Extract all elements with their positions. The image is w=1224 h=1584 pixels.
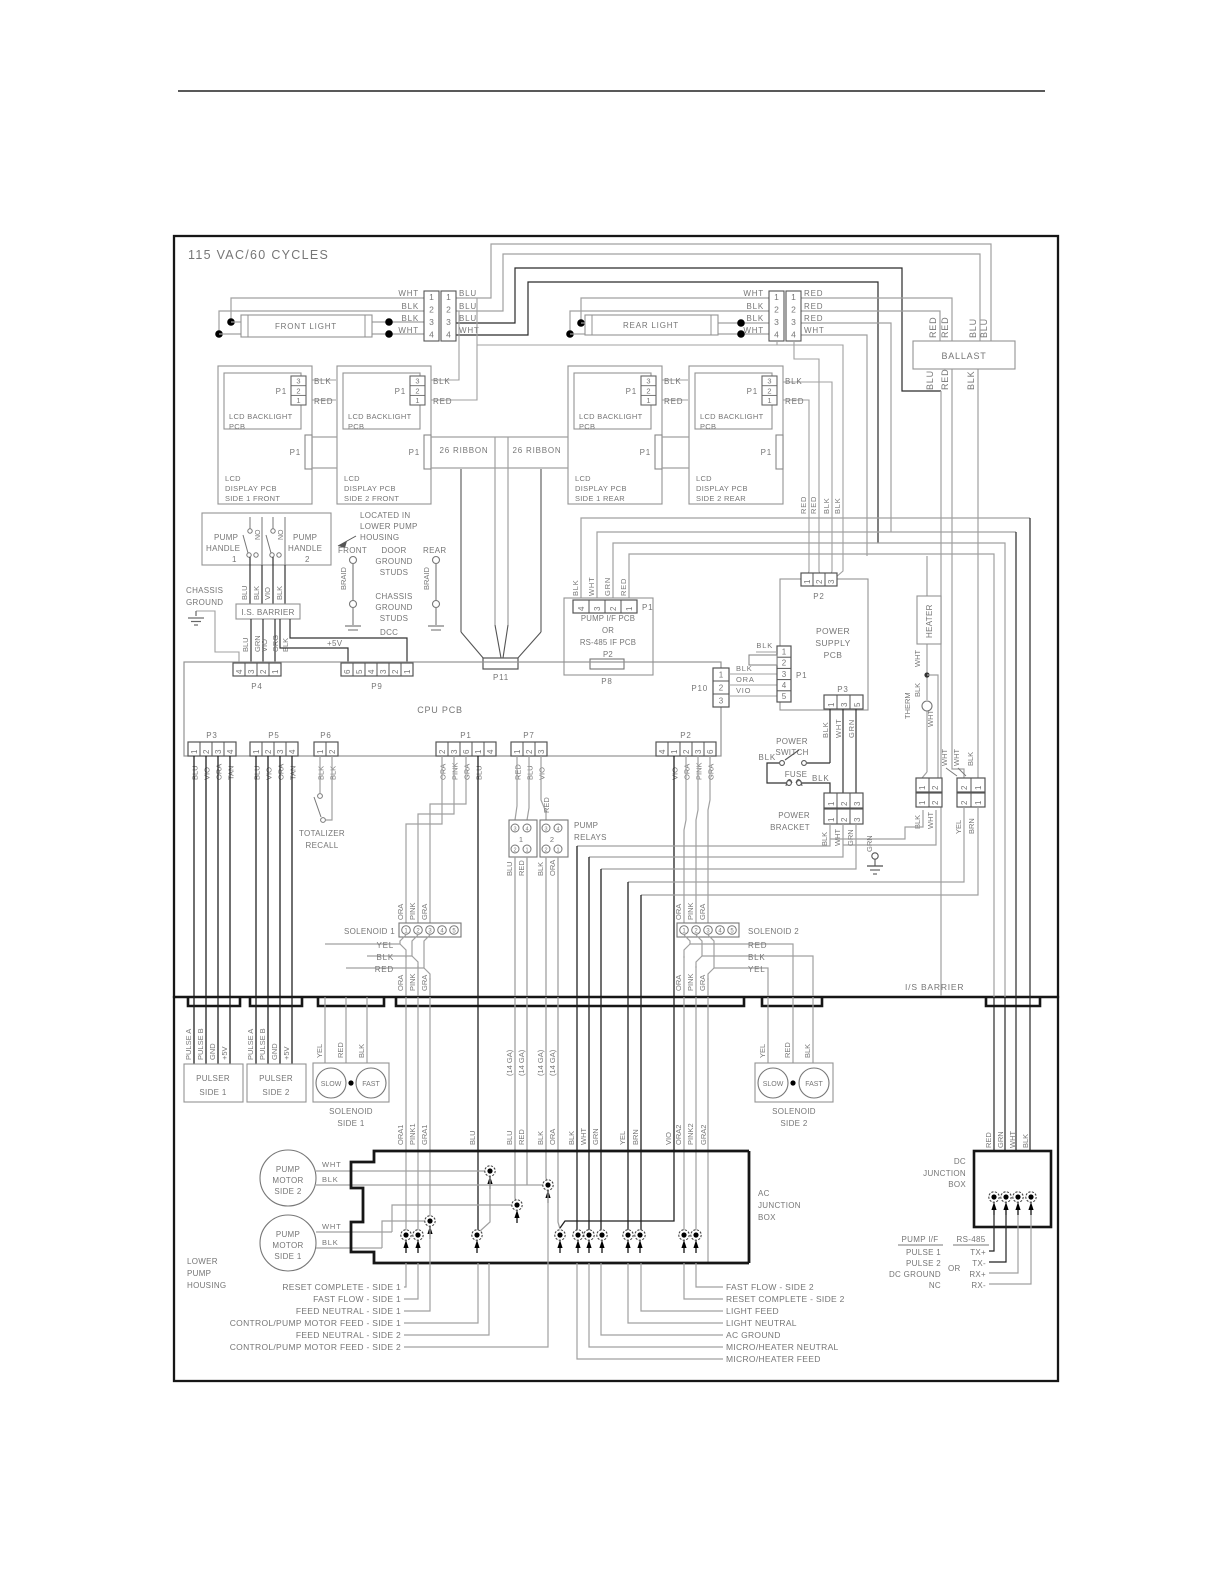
svg-text:BLK: BLK [376, 953, 394, 962]
svg-text:BLK: BLK [401, 302, 419, 311]
svg-text:3: 3 [544, 826, 547, 832]
svg-text:OR: OR [602, 626, 614, 635]
svg-text:4: 4 [486, 749, 495, 754]
power supply P2 connector [799, 496, 842, 601]
svg-text:2: 2 [931, 800, 940, 805]
svg-text:RED: RED [799, 496, 808, 514]
wire P2 ORA to solenoid 2 [684, 756, 686, 925]
svg-text:CPU PCB: CPU PCB [417, 705, 463, 715]
wire backlight4 RED to power supply P2 [777, 400, 809, 578]
svg-text:BLK: BLK [822, 497, 831, 514]
wire rear light right to connector [718, 319, 769, 338]
svg-text:BLK: BLK [803, 1044, 812, 1058]
svg-text:1: 1 [296, 396, 300, 405]
wire 14 GA bundle [505, 997, 560, 1229]
svg-text:CONTROL/PUMP MOTOR FEED - SIDE: CONTROL/PUMP MOTOR FEED - SIDE 1 [230, 1318, 401, 1328]
wire P1 BLU to AC junction box [477, 756, 479, 1235]
svg-text:YEL: YEL [954, 820, 963, 834]
svg-text:GROUND: GROUND [186, 598, 223, 607]
svg-text:WHT: WHT [940, 749, 949, 766]
svg-text:HANDLE: HANDLE [288, 544, 322, 553]
svg-text:BLK: BLK [966, 371, 976, 390]
svg-text:FEED NEUTRAL - SIDE 1: FEED NEUTRAL - SIDE 1 [296, 1306, 401, 1316]
power connector pair right [954, 778, 985, 834]
wire YEL BRN bundle [618, 997, 641, 1235]
svg-text:3: 3 [791, 317, 796, 327]
svg-text:PULSE A: PULSE A [246, 1029, 255, 1060]
wire BLK DCC to P9 pin1 [290, 619, 407, 663]
svg-text:BLK: BLK [322, 1175, 339, 1184]
rear light [585, 315, 718, 335]
svg-text:3: 3 [840, 702, 849, 707]
svg-text:3: 3 [774, 317, 779, 327]
svg-text:GRN: GRN [591, 1128, 600, 1145]
svg-text:1: 1 [446, 292, 451, 302]
wire rear-connector RED row3 [801, 323, 891, 532]
svg-text:RED: RED [336, 1042, 345, 1058]
svg-text:P9: P9 [371, 682, 382, 691]
pump handle box [202, 513, 331, 565]
svg-text:VIO: VIO [263, 587, 272, 600]
solenoid side 1 [313, 1063, 389, 1128]
pulser side 1 [184, 1064, 243, 1102]
svg-text:WHT: WHT [833, 829, 842, 846]
svg-text:3: 3 [379, 669, 388, 674]
pump I/F P1 connector [573, 600, 653, 613]
wire P3 to pulser side 1 [194, 756, 230, 996]
svg-text:MICRO/HEATER FEED: MICRO/HEATER FEED [726, 1354, 821, 1364]
wire solenoid1 BLK [367, 935, 418, 968]
svg-text:SLOW: SLOW [763, 1081, 784, 1088]
svg-text:6: 6 [462, 749, 471, 754]
svg-text:3: 3 [446, 317, 451, 327]
svg-text:1: 1 [474, 749, 483, 754]
svg-text:BLK: BLK [748, 953, 766, 962]
svg-text:BLU: BLU [505, 1130, 514, 1145]
svg-text:AC GROUND: AC GROUND [726, 1330, 781, 1340]
svg-text:CHASSIS: CHASSIS [375, 592, 412, 601]
svg-text:4: 4 [577, 606, 586, 611]
svg-text:BLK: BLK [821, 721, 830, 738]
ballast [913, 317, 1015, 390]
svg-text:YEL: YEL [758, 1044, 767, 1058]
svg-text:1: 1 [429, 292, 434, 302]
svg-text:TAN: TAN [289, 766, 298, 780]
svg-text:BLK: BLK [357, 1044, 366, 1058]
svg-text:1: 1 [415, 396, 419, 405]
wire rear-connector WHT row4 [801, 335, 867, 556]
svg-text:1: 1 [525, 847, 528, 853]
svg-text:2: 2 [296, 386, 300, 395]
svg-text:GRN: GRN [846, 829, 855, 846]
svg-text:PINK2: PINK2 [686, 1123, 695, 1145]
svg-text:(14 GA): (14 GA) [505, 1049, 514, 1076]
ground GRN stub [865, 835, 883, 874]
title 115 VAC/60 CYCLES [188, 248, 329, 262]
svg-text:3: 3 [782, 670, 787, 679]
labels WHT WHT BLK to power connectors [940, 749, 975, 776]
svg-text:I/S BARRIER: I/S BARRIER [905, 982, 964, 992]
svg-text:RESET COMPLETE - SIDE 1: RESET COMPLETE - SIDE 1 [282, 1282, 401, 1292]
svg-text:YEL: YEL [748, 965, 766, 974]
connector P10 cpu [691, 668, 729, 707]
svg-text:1: 1 [767, 396, 771, 405]
wire ballast RED down to heater connector [952, 369, 964, 778]
pump relays label [574, 821, 607, 842]
svg-text:115 VAC/60 CYCLES: 115 VAC/60 CYCLES [188, 248, 329, 262]
svg-text:VIO: VIO [260, 639, 269, 652]
svg-text:GROUND: GROUND [375, 603, 412, 612]
svg-text:2: 2 [259, 669, 268, 674]
svg-text:2: 2 [328, 749, 337, 754]
svg-text:1: 1 [827, 817, 836, 822]
svg-text:BLK: BLK [322, 1238, 339, 1247]
svg-text:PINK1: PINK1 [408, 1123, 417, 1145]
svg-text:P11: P11 [493, 673, 509, 682]
svg-text:BLK: BLK [833, 497, 842, 514]
wire solenoid1 down ORA PINK GRA [396, 956, 430, 996]
svg-text:1: 1 [252, 749, 261, 754]
svg-text:P1: P1 [640, 448, 651, 457]
svg-text:LCD BACKLIGHT: LCD BACKLIGHT [700, 412, 764, 421]
svg-text:DISPLAY PCB: DISPLAY PCB [225, 484, 277, 493]
svg-text:GRA: GRA [698, 975, 707, 991]
chassis ground [186, 586, 239, 663]
door ground studs label [375, 546, 412, 577]
svg-text:WHT: WHT [834, 719, 843, 738]
svg-text:2: 2 [960, 785, 969, 790]
svg-text:BLK: BLK [746, 314, 764, 323]
svg-text:RED: RED [785, 397, 804, 406]
svg-text:ORA: ORA [548, 860, 557, 876]
svg-text:PUMP: PUMP [293, 533, 317, 542]
wire barrier to solenoid side 2 [758, 997, 813, 1080]
svg-text:2: 2 [719, 684, 724, 693]
svg-text:BLK: BLK [433, 377, 451, 386]
svg-text:WHT: WHT [587, 577, 596, 596]
DC junction terminals [989, 1192, 1036, 1215]
lcd display pcb side 1 rear [568, 366, 683, 504]
svg-text:P1: P1 [290, 448, 301, 457]
connector P5 cpu [250, 731, 298, 780]
wire relays to AC junction (14 GA) [505, 857, 558, 996]
svg-text:PUMP: PUMP [574, 821, 598, 830]
wire front-connector WHT row4 [456, 282, 878, 543]
svg-text:BLK: BLK [758, 753, 776, 762]
wire front-connector BLU row1 to ballast [456, 244, 991, 342]
svg-text:1: 1 [519, 835, 523, 844]
wire P1 ORA to solenoid 1 [406, 756, 442, 925]
svg-text:RED: RED [433, 397, 452, 406]
svg-text:P1: P1 [626, 387, 637, 396]
wire solenoid2 RED [684, 935, 793, 996]
svg-text:FRONT LIGHT: FRONT LIGHT [275, 322, 337, 331]
svg-text:PINK: PINK [408, 973, 417, 991]
svg-text:2: 2 [840, 801, 849, 806]
svg-text:4: 4 [226, 749, 235, 754]
svg-text:PCB: PCB [824, 650, 843, 660]
svg-text:2: 2 [791, 305, 796, 315]
svg-text:ORA: ORA [674, 975, 683, 991]
svg-text:DCC: DCC [380, 628, 398, 637]
svg-text:GRA: GRA [420, 904, 429, 920]
svg-text:1: 1 [719, 671, 724, 680]
wire front-connector BLU row3 around ballast [456, 268, 941, 996]
AC junction terminals upper [425, 1166, 553, 1239]
svg-text:2: 2 [682, 749, 691, 754]
svg-text:BLU: BLU [925, 370, 935, 390]
svg-text:WHT: WHT [743, 326, 764, 335]
svg-text:BLU: BLU [468, 1130, 477, 1145]
svg-text:GRA: GRA [463, 764, 472, 780]
svg-text:SOLENOID: SOLENOID [772, 1107, 816, 1116]
svg-text:2: 2 [815, 579, 824, 584]
svg-text:BLK: BLK [281, 638, 290, 652]
wire backlight2 BLK up-right [425, 311, 459, 380]
svg-text:2: 2 [438, 749, 447, 754]
svg-text:REAR: REAR [423, 546, 446, 555]
svg-text:WHT: WHT [926, 710, 935, 727]
svg-text:PCB: PCB [229, 422, 245, 431]
svg-text:BLK: BLK [913, 683, 922, 697]
svg-text:3: 3 [719, 697, 724, 706]
pump motor side 1 [260, 1205, 517, 1271]
svg-text:RED: RED [314, 397, 333, 406]
svg-text:RED: RED [804, 302, 823, 311]
svg-text:BLU: BLU [241, 637, 250, 652]
svg-text:HEATER: HEATER [925, 604, 934, 638]
svg-text:FAST: FAST [805, 1081, 823, 1088]
connector P6 cpu [314, 731, 338, 780]
therm [903, 692, 935, 727]
wire ORG +5V to P9 pin6 [280, 619, 348, 663]
svg-text:BLU: BLU [475, 765, 484, 780]
svg-text:WHT: WHT [579, 1128, 588, 1145]
wire rear connector bottom to power supply P2 [477, 342, 843, 578]
svg-text:PCB: PCB [700, 422, 716, 431]
svg-text:3: 3 [276, 749, 285, 754]
svg-text:AC: AC [758, 1189, 770, 1198]
svg-text:GRN: GRN [603, 577, 612, 596]
svg-text:SIDE 1 FRONT: SIDE 1 FRONT [225, 494, 280, 503]
svg-text:RESET COMPLETE - SIDE 2: RESET COMPLETE - SIDE 2 [726, 1294, 845, 1304]
svg-text:GND: GND [208, 1043, 217, 1060]
svg-text:RED: RED [664, 397, 683, 406]
svg-text:26 RIBBON: 26 RIBBON [513, 446, 562, 455]
svg-text:3: 3 [827, 579, 836, 584]
svg-text:BALLAST: BALLAST [941, 351, 986, 361]
svg-text:2: 2 [415, 386, 419, 395]
wire right pair to YEL BRN bundle [628, 807, 978, 996]
heater connector pair left [913, 778, 942, 829]
svg-text:NO: NO [278, 529, 285, 540]
svg-text:PINK: PINK [451, 762, 460, 780]
svg-text:P4: P4 [251, 682, 262, 691]
pump relay 2 [540, 820, 568, 857]
svg-text:SIDE 2: SIDE 2 [274, 1187, 301, 1196]
svg-text:1: 1 [974, 800, 983, 805]
svg-text:+5V: +5V [282, 1046, 291, 1060]
svg-text:SOLENOID 2: SOLENOID 2 [748, 927, 799, 936]
svg-text:SIDE 1: SIDE 1 [199, 1088, 226, 1097]
I/S barrier label [905, 982, 964, 992]
svg-text:4: 4 [288, 749, 297, 754]
svg-text:P5: P5 [268, 731, 279, 740]
svg-text:PULSER: PULSER [196, 1074, 230, 1083]
svg-text:SOLENOID 1: SOLENOID 1 [344, 927, 395, 936]
svg-text:ORA: ORA [683, 764, 692, 780]
svg-text:BRAID: BRAID [422, 566, 431, 590]
svg-text:HANDLE: HANDLE [206, 544, 240, 553]
svg-text:LCD: LCD [225, 474, 241, 483]
svg-text:RED: RED [748, 941, 767, 950]
svg-text:2: 2 [446, 305, 451, 315]
svg-text:WHT: WHT [398, 326, 419, 335]
svg-text:2: 2 [550, 835, 554, 844]
svg-text:BLU: BLU [505, 861, 514, 876]
svg-text:BRAID: BRAID [339, 566, 348, 590]
svg-text:GRA: GRA [698, 904, 707, 920]
lcd display pcb side 2 front [337, 366, 452, 504]
svg-text:MOTOR: MOTOR [272, 1241, 303, 1250]
svg-text:BLU: BLU [526, 765, 535, 780]
connector P3 cpu [188, 731, 236, 780]
wire P7 to pump relays [515, 756, 551, 820]
svg-text:SOLENOID: SOLENOID [329, 1107, 373, 1116]
I/S barrier shields [188, 998, 1040, 1006]
svg-text:1: 1 [670, 749, 679, 754]
svg-text:YEL: YEL [376, 941, 394, 950]
wire pump handles to IS barrier [240, 557, 285, 604]
svg-text:LCD BACKLIGHT: LCD BACKLIGHT [579, 412, 643, 421]
svg-text:SIDE 1 REAR: SIDE 1 REAR [575, 494, 625, 503]
svg-text:2: 2 [544, 847, 547, 853]
svg-text:BOX: BOX [758, 1213, 776, 1222]
svg-text:RED: RED [809, 496, 818, 514]
svg-text:P3: P3 [837, 685, 848, 694]
svg-text:P1: P1 [409, 448, 420, 457]
svg-text:3: 3 [593, 606, 602, 611]
svg-text:VIO: VIO [671, 767, 680, 780]
svg-text:WHT: WHT [913, 650, 922, 667]
svg-text:BLK: BLK [785, 377, 803, 386]
svg-text:BLK: BLK [664, 377, 682, 386]
svg-text:3: 3 [853, 817, 862, 822]
svg-text:BLK: BLK [536, 1131, 545, 1145]
svg-text:2: 2 [774, 305, 779, 315]
svg-text:JUNCTION: JUNCTION [758, 1201, 801, 1210]
svg-text:PULSER: PULSER [259, 1074, 293, 1083]
svg-text:BLU: BLU [459, 289, 477, 298]
svg-text:2: 2 [960, 800, 969, 805]
svg-text:LCD BACKLIGHT: LCD BACKLIGHT [348, 412, 412, 421]
svg-text:1: 1 [232, 555, 237, 564]
wire VIO ORA2 PINK2 GRA2 bundle [560, 997, 708, 1263]
svg-text:YEL: YEL [618, 1131, 627, 1145]
wire DC terminals to RS-485 rows [989, 1215, 1031, 1284]
totalizer recall switch [299, 756, 345, 850]
svg-text:4: 4 [429, 330, 434, 340]
bottom labels side 2 [577, 1263, 845, 1364]
svg-text:VIO: VIO [664, 1132, 673, 1145]
svg-text:VIO: VIO [265, 767, 274, 780]
svg-text:2: 2 [513, 847, 516, 853]
wire bundle ORA1 PINK1 GRA1 [396, 997, 430, 1235]
svg-text:1: 1 [974, 785, 983, 790]
svg-text:GRA: GRA [420, 975, 429, 991]
svg-text:RED: RED [984, 1132, 993, 1148]
svg-text:BRN: BRN [631, 1129, 640, 1145]
svg-text:GRN: GRN [996, 1131, 1005, 1148]
svg-text:NO: NO [255, 529, 262, 540]
svg-text:P1: P1 [642, 603, 653, 612]
wire bracket GRN to barrier bundle [601, 824, 856, 996]
svg-text:POWER: POWER [778, 811, 810, 820]
svg-text:3: 3 [513, 826, 516, 832]
svg-text:THERM: THERM [903, 692, 912, 719]
svg-text:GRA1: GRA1 [420, 1125, 429, 1145]
front light [241, 315, 372, 337]
svg-text:VIO: VIO [538, 767, 547, 780]
svg-text:1: 1 [513, 749, 522, 754]
svg-text:STUDS: STUDS [380, 614, 409, 623]
svg-text:RED: RED [514, 764, 523, 780]
svg-text:BLK: BLK [812, 774, 830, 783]
ribbon cable 26 ribbon [312, 437, 689, 468]
svg-text:TX-: TX- [972, 1259, 986, 1268]
wire power supply P3 to bracket [843, 709, 856, 793]
svg-text:RS-485: RS-485 [957, 1235, 986, 1244]
svg-text:PULSE A: PULSE A [184, 1029, 193, 1060]
svg-text:PUMP: PUMP [276, 1230, 300, 1239]
svg-text:RED: RED [928, 317, 938, 338]
svg-text:PINK: PINK [695, 762, 704, 780]
svg-text:1: 1 [646, 396, 650, 405]
wire heater chain [922, 644, 938, 778]
pump I/F RS-485 table [889, 1235, 989, 1290]
svg-text:3: 3 [296, 377, 300, 386]
connector P2 cpu [656, 731, 716, 780]
svg-text:STUDS: STUDS [380, 568, 409, 577]
svg-text:2: 2 [782, 659, 787, 668]
wire P1 GRA to solenoid 1 [430, 756, 466, 925]
solenoid side 2 [755, 1063, 833, 1128]
svg-text:SIDE 2 FRONT: SIDE 2 FRONT [344, 494, 399, 503]
svg-text:SIDE 2: SIDE 2 [262, 1088, 289, 1097]
svg-text:LOWER: LOWER [187, 1257, 218, 1266]
wire P2 VIO down [673, 756, 675, 996]
svg-text:ORA: ORA [674, 904, 683, 920]
lower pump housing label [187, 1257, 226, 1290]
connector P8 [590, 659, 624, 686]
svg-text:5: 5 [853, 702, 862, 707]
svg-text:BLK: BLK [1021, 1134, 1030, 1148]
wire pump I/F pins up to right side (to DC junction) [571, 518, 1030, 1151]
wire front-connector BLU row2 to ballast [456, 254, 980, 342]
I.S. barrier box [236, 604, 300, 619]
svg-text:P2: P2 [603, 650, 613, 659]
svg-text:5: 5 [355, 669, 364, 674]
wire barrier to pulser side 1 [184, 997, 230, 1064]
svg-text:PULSE 1: PULSE 1 [906, 1248, 941, 1257]
svg-text:RED: RED [783, 1042, 792, 1058]
wire solenoid2 down ORA PINK GRA [674, 956, 708, 996]
svg-text:4: 4 [525, 826, 528, 832]
svg-text:SLOW: SLOW [321, 1081, 342, 1088]
wire P2 GRA to solenoid 2 [708, 756, 710, 925]
chassis ground studs label [375, 592, 412, 623]
svg-text:DISPLAY PCB: DISPLAY PCB [575, 484, 627, 493]
